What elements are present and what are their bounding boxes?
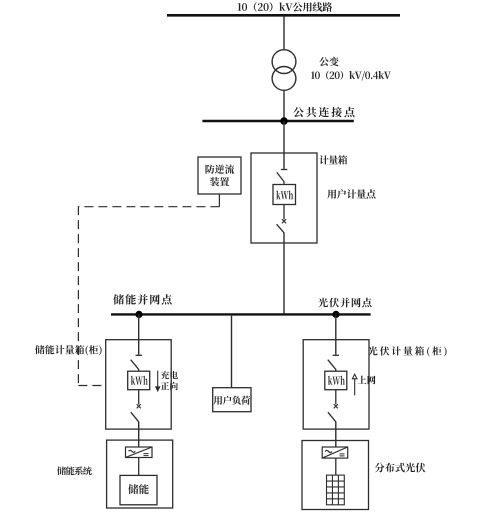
wire: S3 to kWh meter (335, 369, 337, 371)
label: 光伏并网点 (318, 298, 371, 308)
label: 充电 (161, 371, 178, 379)
arrow: charging direction (down) (156, 371, 160, 392)
switch S3 blade (328, 360, 336, 370)
label: kWh (M3) (328, 376, 345, 385)
PV array panel symbol (327, 475, 345, 505)
label: kWh (M1) (276, 190, 293, 199)
wire: inverter to battery (138, 458, 140, 476)
wire: 10(20)kV public line bus (167, 14, 400, 17)
wire: PCC bus into metering box (283, 121, 285, 169)
wire: dashed signal line to storage meter (78, 385, 105, 387)
wire: bus to transformer (283, 15, 285, 50)
wire: bus into storage meter box (138, 314, 140, 354)
wire: storage meter box to inverter (138, 422, 140, 447)
wire: PV meter box to inverter (335, 422, 337, 447)
box: 光伏计量箱(柜) outline (303, 340, 369, 429)
label: 储能并网点 (113, 294, 171, 304)
switch S3 contact bar (333, 354, 339, 356)
switch S2 contact bar (136, 354, 142, 356)
label: 用户计量点 (327, 189, 375, 199)
wire: PCC bus 公共连接点 (202, 120, 353, 123)
wire: bus into PV meter box (335, 314, 337, 354)
box: 防逆流装置 outline (198, 157, 241, 194)
wire: S1 to kWh meter (283, 181, 285, 184)
wire: S2 to kWh meter (138, 369, 140, 371)
switch S1 contact bar (281, 169, 287, 171)
switch S2 blade (131, 360, 139, 370)
wire: low-voltage bus (111, 313, 371, 315)
wire: metering box down to lower bus (283, 233, 285, 315)
label: 正向 (161, 382, 178, 390)
kWh meter M1 box (273, 185, 296, 205)
wire: dashed signal line vertical (77, 206, 79, 385)
breaker K1 x-mark (282, 219, 286, 223)
label: 防逆流 (205, 164, 234, 173)
label: 公变 (319, 57, 339, 67)
breaker K1 blade (277, 224, 284, 233)
node: PCC junction dot (280, 117, 288, 125)
inverter PCS1 box (126, 447, 153, 458)
box: 储能系统 outline (107, 440, 173, 508)
label: 分布式光伏 (375, 463, 426, 473)
label: 上网 (358, 376, 376, 385)
box: 用户负荷 outline (213, 388, 251, 412)
label: 储能 (128, 484, 148, 494)
wire: M3 to breaker (335, 390, 337, 405)
label: 用户负荷 (214, 396, 251, 405)
inverter PCS2 box (322, 447, 348, 458)
label: 光伏计量箱(柜) (368, 346, 446, 356)
box: 储能计量箱(柜) outline (106, 340, 172, 429)
label: kWh (M2) (131, 376, 148, 385)
box: 储能 battery outline (120, 475, 157, 504)
label: 计量箱 (319, 155, 347, 164)
wire: M1 to breaker (283, 205, 285, 220)
arrow: feed-in direction (up) 上网 (352, 374, 357, 395)
kWh meter M3 box (325, 371, 347, 390)
wire: 防逆流装置 drop (218, 194, 220, 207)
wire: M2 to breaker (138, 390, 140, 405)
label: 储能计量箱(柜) (35, 345, 101, 355)
wire: dashed signal line horizontal (78, 206, 219, 208)
box: 分布式光伏 outline (302, 441, 369, 510)
switch S1 blade (277, 172, 284, 181)
wire: inverter to PV panel (335, 458, 337, 475)
breaker K2 x-mark (137, 404, 141, 408)
breaker K3 blade (328, 412, 336, 422)
label: 公共连接点 (293, 107, 354, 117)
wire: transformer to PCC bus (283, 90, 285, 121)
breaker K3 x-mark (334, 404, 338, 408)
breaker K2 blade (131, 412, 139, 422)
label: 10(20)kV公用线路 (238, 2, 333, 12)
label: 10(20)kV/0.4kV (311, 71, 391, 81)
box: 计量箱 metering box outline (251, 153, 317, 243)
node: PV connection dot (332, 311, 339, 318)
wire: bus to user load (231, 314, 233, 387)
node: storage connection dot (135, 311, 142, 318)
label: 装置 (210, 177, 229, 186)
transformer T 公变 (two-winding) (272, 50, 296, 91)
kWh meter M2 box (128, 371, 150, 390)
label: 储能系统 (57, 466, 92, 475)
